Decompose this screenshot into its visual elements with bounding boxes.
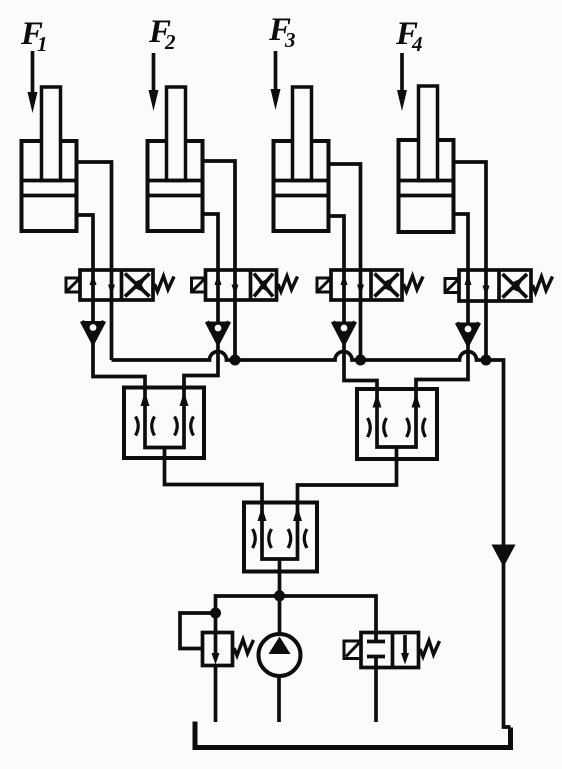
cylinder C1 [22,87,77,231]
junction dot node at valve V4 right port on main line [481,355,492,366]
relief valve PV spring [234,640,254,656]
check valve K2 [207,322,229,343]
return line flow arrow [492,545,516,568]
junction dot node relief pilot tap [210,608,221,619]
relief valve PV arrow [212,633,220,665]
wire cylinder3 bottom port through check K3 to divider D2 left input [329,216,378,391]
valve V3 crossed arrows [375,274,399,297]
bypass valve V5 solenoid [344,641,361,659]
wire cylinder3 top port to valve V3 right port [329,164,361,360]
check valve K1 [82,321,104,342]
force F4 arrow [397,53,407,111]
junction dot node divider D3 output on pump line [274,590,285,601]
valve V4 body [459,270,531,301]
valve V3 left cell arrows [341,274,365,296]
valve V2 left cell arrows [215,274,239,296]
cylinder C2 [148,87,203,231]
bypass valve V5 spring [420,641,440,657]
valve V1 left cell arrows [90,274,116,296]
check valve K3 [333,322,355,343]
valve V2 crossed arrows [254,274,273,297]
junction dot node at valve V3 right port on main line [355,355,366,366]
valve V3 body [331,270,402,300]
check valve K4 [457,323,479,344]
valve V4 solenoid [445,279,459,293]
relief valve PV body [203,633,233,666]
wire relief valve drain to tank [214,666,218,723]
force F2 arrow [149,53,159,111]
valve V1 body [80,270,153,300]
divider D3 arrows and orifices [253,507,308,548]
valve V4 spring [533,277,553,293]
wire main return line with bridges over check lines, down right side to tank [112,352,511,728]
valve V2 spring [278,276,298,292]
force F3 arrow [271,51,281,110]
force F1 arrow [28,51,38,113]
flow divider D1 [124,388,262,505]
flow divider D2 [298,389,438,504]
wire pump suction to tank [277,676,281,722]
wire cylinder2 bottom port through check K2 to divider D1 right input [184,214,218,390]
cylinder C3 [274,87,329,231]
valve V3 solenoid [317,278,331,292]
wire cylinder2 top port to valve V2 right port [203,161,236,360]
wire bypass valve drain to tank [374,668,378,723]
cylinder C4 [399,86,454,232]
wire cylinder1 top port to valve V1 right port [77,162,112,360]
junction dot node at valve V2 right port on main line [230,355,241,366]
valve V4 left cell arrows [465,274,490,297]
wire cylinder4 bottom port through check K4 to divider D2 right input [416,214,468,391]
tank T1 [195,722,511,748]
bypass valve V5 body [361,633,419,668]
valve V1 solenoid [66,278,80,292]
valve V3 spring [404,276,424,292]
bypass valve V5 closed port symbol [367,633,385,668]
valve V1 crossed arrows [125,274,150,297]
wire cylinder4 top port to valve V4 right port [454,162,487,360]
valve V2 body [206,270,277,300]
pump P1 [259,634,301,676]
divider D2 arrows and orifices [368,394,426,438]
valve V1 spring [155,276,175,292]
valve V2 solenoid [192,278,206,292]
divider D1 arrows and orifices [136,392,194,436]
bypass valve V5 flow arrow [401,635,409,665]
valve V4 crossed arrows [503,274,528,298]
wire cylinder1 bottom port through check K1 to divider D1 left input [77,215,146,390]
wire relief valve pilot loop [180,613,216,649]
pump supply line [216,596,377,633]
flow divider D3 [244,503,317,635]
